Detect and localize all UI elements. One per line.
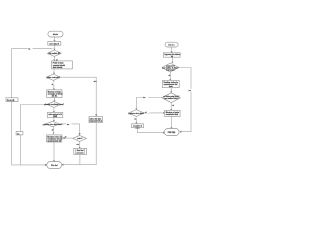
process RP3: mostrar error [132,124,144,130]
wire: diamond R3 right branch to process RP4 (si) [144,111,165,114]
label: no (on R1 right branch vertical) [188,89,193,92]
wire: diamond D2 to process P3 (si) [51,80,56,90]
svg-text:¿quiere otro dato mas?: ¿quiere otro dato mas? [43,123,63,126]
process P2: pedir usuario [52,61,73,69]
diamond D1: es valido? [47,50,61,56]
wire: diamond D5 to subroutine S1 (no) [77,142,81,149]
svg-text:leer dato N: leer dato N [50,42,60,45]
label: tag on D2 right branch vertical [93,80,99,83]
wire: diamond R2 left (no) branch to diamond R3 [135,96,162,110]
wire: diamond D1 left (no) branch down and into end terminator [12,49,53,166]
svg-text:del dia: del dia [51,96,58,98]
svg-text:Inicio: Inicio [53,34,59,36]
label box B1 on left return line [6,98,18,102]
terminator: end right (Fin) [164,129,179,136]
wire: process P5 to end terminator [53,142,55,162]
svg-text:¿otro?: ¿otro? [77,137,83,140]
svg-text:ingresado N+1: ingresado N+1 [90,121,102,123]
svg-text:Inicio: Inicio [168,45,175,47]
wire: diamond R1 right (no) branch down to end terminator [179,68,191,133]
svg-text:operaciones del: operaciones del [47,141,61,143]
process P3: mostrar mensaje [47,90,64,98]
process P-R: asignar valor [89,117,103,123]
diamond R1: numero valido? [162,63,179,72]
wire: diamond D1 to process P2 (si) [53,56,58,61]
process P1: leer dato [48,42,61,46]
process RP4: mostrar resultado [165,110,180,116]
wire: diamond D5 left to process P5 (si) [62,137,73,140]
svg-text:¿se realizo bien?: ¿se realizo bien? [164,98,179,100]
diamond R2: dato ok? [162,93,181,103]
wire: process RP1 to diamond R1 [171,57,173,63]
svg-text:Fin del: Fin del [51,165,58,167]
wire: process RP4 to end terminator [170,116,172,128]
wire: start to process P1 [53,37,55,42]
subroutine S1 [74,148,87,154]
svg-text:a=1: a=1 [94,81,97,83]
svg-text:ingresado: ingresado [166,70,175,72]
wire: process RP2 to diamond R2 [170,88,172,93]
terminator: start right (Inicio) [165,42,178,47]
wire: process P3 to diamond D3 [53,98,55,102]
svg-text:¿desea continuar mas?: ¿desea continuar mas? [44,103,64,106]
wire: diamond D3 left branch down to end terminator [21,105,48,165]
wire: process P-R bottom to end terminator right side [61,123,96,166]
wire: process P2 to diamond D2 [53,69,55,74]
diamond D3: desea continuar? [44,101,64,107]
svg-text:¿Es valido N?: ¿Es valido N? [48,53,60,55]
wire: start R to process RP1 [171,47,173,53]
svg-text:resultado final: resultado final [166,113,179,116]
svg-text:1998: 1998 [53,116,57,118]
wire: diamond R2 to process RP4 (si) [170,103,174,111]
terminator: start (Inicio) [48,31,63,37]
label: no (on D1 left branch) [28,47,33,50]
wire: diamond R1 to process RP2 (si) [169,72,172,81]
wire: subroutine S1 bottom joining right return line [79,155,81,165]
diamond D5: otra vez? [73,135,87,141]
svg-text:¿dato correcto?: ¿dato correcto? [46,76,60,79]
process RP2: realizar operacion [162,80,179,88]
svg-text:FIN DEL: FIN DEL [168,132,177,134]
svg-text:¿quiere otro dato?: ¿quiere otro dato? [128,112,144,115]
wire: process RP3 bottom to end terminator left [137,128,165,134]
wire: process P1 to diamond D1 [53,45,55,50]
wire: diamond D3 to process P4 (si) [53,107,55,112]
svg-text:dato inicial.: dato inicial. [53,66,63,69]
svg-text:proceso: proceso [77,152,85,154]
label box B2 on second return line [16,132,23,136]
wire: diamond D2 right branch down to process P-R [60,77,97,116]
wire: process P4 to diamond D4 [53,118,55,122]
diamond D4: otro dato? [43,121,63,127]
diamond D2: dato correcto? [46,74,60,80]
wire: diamond D4 to process P5 (si) [52,127,55,134]
wire: diamond D4 right branch to diamond D5 (no) [59,123,80,136]
svg-text:FALSE: FALSE [7,99,15,102]
terminator: end (Fin) [47,162,62,169]
diamond R3: otro? [128,110,144,117]
process RP1: ingresar dato [163,53,180,58]
process P5: mostrar resultado [47,135,63,143]
svg-text:error: error [135,127,139,129]
process P4: calcular valor [47,113,63,119]
wire: diamond R3 to process RP3 (no) [134,116,139,123]
